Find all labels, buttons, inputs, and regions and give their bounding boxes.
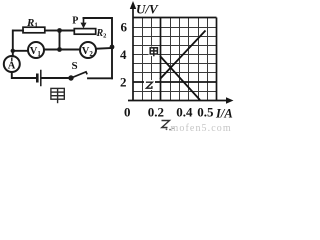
svg-text:0: 0 xyxy=(124,105,131,120)
wire slider to top-right corner xyxy=(84,18,113,47)
grid horizontal thin lines xyxy=(133,91,217,93)
svg-text:V1: V1 xyxy=(30,46,42,58)
svg-text:I/A: I/A xyxy=(215,107,233,121)
wire R1 to node B xyxy=(46,30,60,32)
watermark Z glyph xyxy=(162,121,170,128)
curve yi ascending line xyxy=(160,31,206,80)
node D junction dot xyxy=(11,49,15,53)
wire top-left horizontal to R1 xyxy=(13,30,23,32)
ammeter needle mark xyxy=(11,58,13,62)
svg-text:R2: R2 xyxy=(96,28,107,40)
grid right border xyxy=(216,18,218,101)
wire left rail vertical xyxy=(12,31,14,57)
curve label yi drawn glyph xyxy=(144,80,155,90)
svg-text:U/V: U/V xyxy=(136,2,159,17)
x axis arrowhead xyxy=(226,97,234,103)
wire ammeter to bottom rail xyxy=(12,72,36,78)
svg-text:S: S xyxy=(72,60,78,72)
wire battery to switch xyxy=(42,77,72,79)
svg-text:mofen5.com: mofen5.com xyxy=(171,123,232,133)
grid bold vertical line I=0.2 xyxy=(160,18,162,101)
svg-text:R1: R1 xyxy=(26,17,38,30)
svg-text:0.2: 0.2 xyxy=(148,105,164,120)
voltmeter V1 xyxy=(28,42,44,58)
switch S pivot dot xyxy=(68,75,73,80)
svg-text:6: 6 xyxy=(121,20,128,35)
svg-text:V2: V2 xyxy=(82,46,94,58)
rheostat R2 body xyxy=(74,29,95,35)
y axis arrowhead xyxy=(130,1,136,9)
curve jia descending line xyxy=(160,56,200,100)
voltmeter V2 xyxy=(80,42,96,58)
svg-text:0.4: 0.4 xyxy=(176,105,193,120)
wire V2 to node E xyxy=(96,47,112,50)
resistor R1 xyxy=(23,27,45,33)
wire right rail vertical xyxy=(111,47,113,78)
svg-text:0.5: 0.5 xyxy=(197,105,214,120)
svg-text:A: A xyxy=(8,61,16,72)
rheostat slider arrow P xyxy=(83,18,85,23)
wire switch to right rail xyxy=(88,77,112,79)
grid top border xyxy=(133,17,217,19)
ammeter A xyxy=(4,56,20,72)
battery negative plate xyxy=(36,75,39,81)
caption jia (circuit) drawn glyph xyxy=(51,88,64,103)
wire vertical node B down to node C xyxy=(59,31,61,50)
grid vertical thin lines xyxy=(142,18,144,101)
wire node B to rheostat R2 xyxy=(60,30,75,32)
grid bold horizontal line U=2 xyxy=(133,81,217,83)
switch S blade xyxy=(71,72,87,78)
y axis U xyxy=(132,4,134,101)
svg-text:4: 4 xyxy=(120,47,127,62)
node C junction dot xyxy=(57,47,62,52)
curve label jia drawn glyph xyxy=(149,47,158,57)
svg-text:P: P xyxy=(72,15,78,26)
battery positive plate xyxy=(40,71,42,86)
node E junction dot on right rail xyxy=(110,45,115,50)
wire node C to voltmeter V1 xyxy=(44,49,60,51)
x axis I xyxy=(128,100,230,102)
wire node C to voltmeter V2 xyxy=(60,49,81,51)
wire V1 left to left rail xyxy=(13,50,28,52)
node B junction dot xyxy=(57,28,62,33)
watermark dots xyxy=(166,128,168,130)
svg-text:2: 2 xyxy=(120,75,127,90)
